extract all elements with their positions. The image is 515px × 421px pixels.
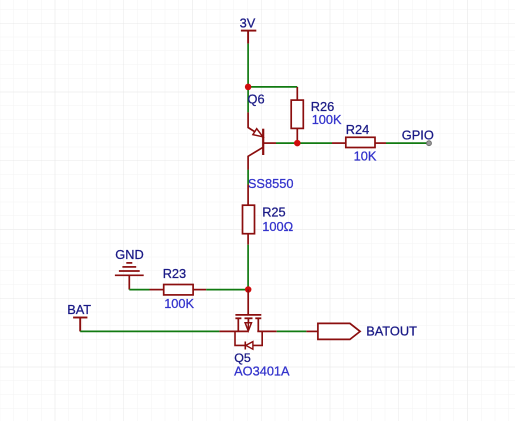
- netport BATOUT flag: [306, 323, 360, 339]
- svg-text:R23: R23: [163, 266, 186, 281]
- svg-text:100K: 100K: [312, 112, 342, 127]
- svg-text:R24: R24: [346, 122, 369, 137]
- svg-text:SS8550: SS8550: [248, 176, 294, 191]
- wire BAT to Q5 source: [80, 330, 219, 332]
- svg-text:Q6: Q6: [248, 91, 265, 106]
- svg-text:AO3401A: AO3401A: [234, 364, 290, 379]
- node A junction: [245, 84, 252, 91]
- svg-text:BATOUT: BATOUT: [366, 323, 417, 338]
- wire node A to R26 top: [248, 86, 297, 88]
- wire Q5 drain to BATOUT: [277, 330, 307, 332]
- resistor R26: [291, 87, 303, 143]
- wire R24 to GPIO: [386, 142, 429, 144]
- node C junction: [245, 286, 252, 293]
- ground symbol GND: [115, 263, 144, 290]
- svg-text:GPIO: GPIO: [402, 128, 434, 143]
- svg-text:3V: 3V: [240, 15, 256, 30]
- wire Q6 base to R24: [276, 142, 332, 144]
- unconnected end dot GPIO: [427, 141, 432, 146]
- wire node C to Q5 gate: [247, 290, 249, 315]
- svg-text:100K: 100K: [164, 296, 194, 311]
- svg-text:GND: GND: [115, 247, 143, 262]
- svg-text:100Ω: 100Ω: [262, 219, 293, 234]
- resistor R23: [150, 285, 207, 295]
- wire GND to R23: [129, 289, 149, 291]
- svg-text:BAT: BAT: [67, 302, 91, 317]
- resistor R25: [243, 185, 255, 245]
- node B junction: [294, 140, 301, 147]
- power flag BAT: [73, 318, 87, 332]
- wire Q6 collector to R25: [247, 170, 249, 185]
- power flag 3V: [241, 31, 256, 44]
- wire R23 to node C: [206, 289, 248, 291]
- transistor Q5 P-MOSFET: [219, 315, 276, 350]
- wire R25 to node C: [247, 245, 249, 290]
- svg-text:R25: R25: [262, 205, 285, 220]
- transistor Q6: [248, 112, 276, 169]
- wire node A to Q6 emitter: [247, 87, 249, 112]
- svg-text:10K: 10K: [354, 148, 377, 163]
- wire 3V to node A: [247, 44, 249, 87]
- resistor R24: [332, 137, 386, 147]
